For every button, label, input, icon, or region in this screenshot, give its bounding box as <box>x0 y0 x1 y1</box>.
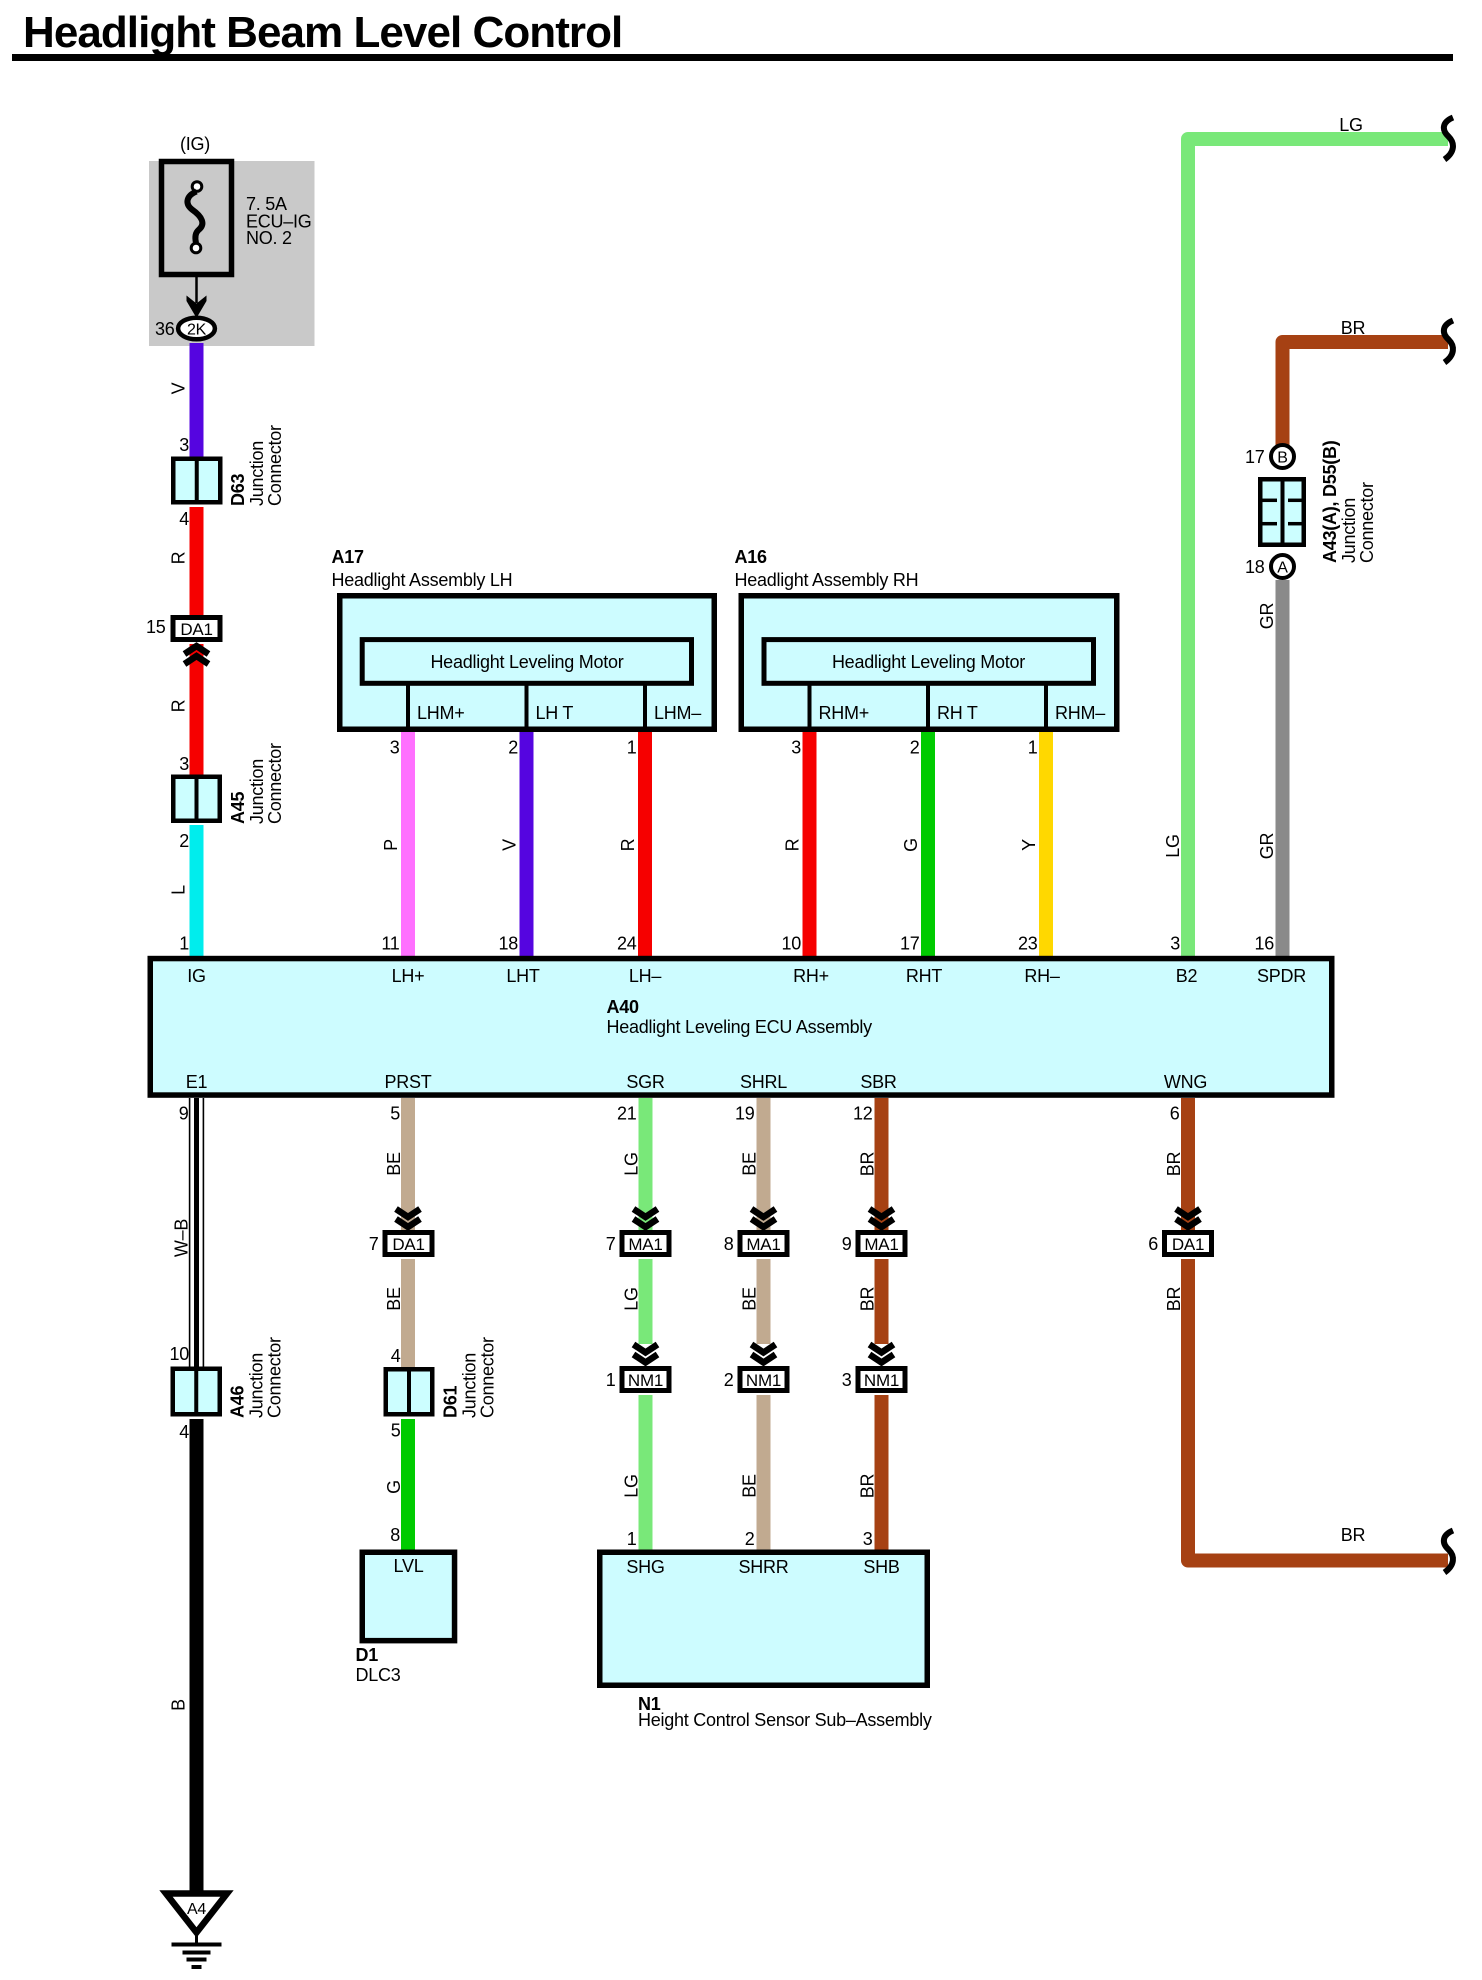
wire BR (from right edge to junction connector pin 17) <box>1283 342 1449 445</box>
svg-text:W–B: W–B <box>172 1219 192 1258</box>
headlight leveling ECU box A40 <box>150 959 1332 1096</box>
svg-text:SHG: SHG <box>626 1557 664 1577</box>
A17 name label <box>332 570 513 590</box>
A40 terminal label B2 <box>1176 966 1198 986</box>
pin 12 label (A40) <box>853 1104 873 1124</box>
svg-text:18: 18 <box>1245 557 1265 577</box>
svg-text:Connector: Connector <box>265 425 285 506</box>
pin 3 label (A17) <box>390 738 400 758</box>
D1 terminal label LVL <box>394 1556 424 1576</box>
svg-text:SPDR: SPDR <box>1257 966 1306 986</box>
svg-text:MA1: MA1 <box>628 1235 662 1254</box>
svg-text:SBR: SBR <box>860 1072 897 1092</box>
pin 36 label <box>155 319 175 339</box>
svg-text:Junction: Junction <box>460 1353 480 1418</box>
pin 6 label (A40 WNG) <box>1170 1104 1180 1124</box>
pin 3 label (A16) <box>791 738 801 758</box>
svg-text:17: 17 <box>1245 447 1265 467</box>
wire BR (A40 WNG to DA1) <box>1181 1098 1195 1232</box>
wire label BR <box>1164 1152 1184 1177</box>
pin 17 label <box>900 934 920 954</box>
svg-text:BE: BE <box>384 1152 404 1176</box>
svg-text:9: 9 <box>842 1234 852 1254</box>
svg-text:8: 8 <box>390 1525 400 1545</box>
A40 terminal label SGR <box>626 1072 665 1092</box>
wire LG (A40 to MA1) <box>639 1098 653 1232</box>
junction connector D61 <box>386 1367 433 1417</box>
svg-text:2: 2 <box>724 1370 734 1390</box>
svg-text:7: 7 <box>606 1234 616 1254</box>
wire fuse to node 2K with arrowhead <box>187 277 207 318</box>
wire label BR <box>858 1474 878 1499</box>
svg-text:LHM+: LHM+ <box>417 703 465 723</box>
DLC3 box D1 <box>362 1552 454 1640</box>
svg-text:WNG: WNG <box>1164 1072 1207 1092</box>
svg-text:Headlight Beam Level Control: Headlight Beam Level Control <box>23 8 622 57</box>
svg-text:RHM–: RHM– <box>1055 703 1105 723</box>
wire label V <box>169 382 189 394</box>
svg-text:2: 2 <box>179 831 189 851</box>
connector NM1 (pin 2) <box>740 1369 787 1391</box>
svg-text:1: 1 <box>1028 738 1038 758</box>
A40 terminal label LH- <box>629 966 662 986</box>
svg-text:MA1: MA1 <box>864 1235 898 1254</box>
wire label BR (vertical) <box>1164 1287 1184 1312</box>
headlight assembly RH box A16 <box>741 596 1117 730</box>
A40 terminal label SPDR <box>1257 966 1306 986</box>
svg-text:RH–: RH– <box>1024 966 1059 986</box>
pin 11 label <box>381 934 399 954</box>
pin 17 label (connector B) <box>1245 447 1265 467</box>
svg-text:V: V <box>500 839 520 851</box>
svg-text:LH–: LH– <box>629 966 662 986</box>
ground A4 symbol <box>166 1894 227 1968</box>
fuse ECU-IG NO.2 box outline <box>162 162 232 275</box>
svg-text:A40: A40 <box>607 997 640 1017</box>
wire BR (DA1 to right edge) <box>1188 1259 1448 1561</box>
svg-text:SHB: SHB <box>863 1557 900 1577</box>
svg-text:A: A <box>1277 560 1288 577</box>
wire R (D63 to DA1) <box>190 507 204 617</box>
terminal label RHM- <box>1055 703 1105 723</box>
wire label B <box>169 1699 189 1711</box>
svg-text:1: 1 <box>179 934 189 954</box>
wire R (RHM+ to A40 pin 10) <box>803 732 817 957</box>
svg-text:NM1: NM1 <box>628 1371 663 1390</box>
junction connector D63 <box>173 457 220 505</box>
D63 designator label <box>228 425 285 506</box>
wire label LG <box>622 1152 642 1176</box>
fuse background panel <box>149 161 315 346</box>
pin 3 label (NM1) <box>842 1370 852 1390</box>
title text <box>23 8 622 57</box>
wire-to-wire arrow above DA1 <box>1176 1209 1200 1227</box>
svg-text:A16: A16 <box>735 547 768 567</box>
A17 terminal dividers <box>408 686 645 730</box>
junction connector A46 <box>173 1367 220 1417</box>
svg-text:BE: BE <box>740 1474 760 1498</box>
wire label GR (upper) <box>1257 602 1277 629</box>
D1 designator and name <box>356 1645 401 1685</box>
svg-text:R: R <box>783 838 803 851</box>
A16 designator <box>735 547 768 567</box>
svg-text:Junction: Junction <box>247 441 267 506</box>
svg-text:V: V <box>169 382 189 394</box>
pin 4 label (A46 bottom) <box>179 1422 189 1442</box>
terminal label LHM+ <box>417 703 465 723</box>
pin 3 label (A40 B2) <box>1170 934 1180 954</box>
svg-text:23: 23 <box>1018 934 1038 954</box>
svg-text:RH T: RH T <box>937 703 978 723</box>
svg-text:2K: 2K <box>187 322 207 339</box>
wire-to-wire arrow above MA1 <box>752 1209 776 1227</box>
wire B (A46 to ground A4) <box>190 1419 204 1891</box>
wire BE (A40 to MA1) <box>757 1098 771 1232</box>
wire L (A45 to A40 pin 1 IG) <box>190 825 204 957</box>
svg-text:Headlight Assembly LH: Headlight Assembly LH <box>332 570 513 590</box>
wire BE (MA1 to NM1) <box>757 1259 771 1344</box>
svg-text:D1: D1 <box>356 1645 379 1665</box>
svg-text:A17: A17 <box>332 547 365 567</box>
pin 21 label (A40) <box>617 1104 637 1124</box>
svg-text:LHT: LHT <box>506 966 540 986</box>
svg-text:BR: BR <box>1341 1525 1366 1545</box>
wire label GR (lower) <box>1257 832 1277 859</box>
wire LG (MA1 to NM1) <box>639 1259 653 1344</box>
connector MA1 (pin 9) <box>858 1233 905 1255</box>
N1 designator and name <box>638 1694 932 1730</box>
svg-text:5: 5 <box>390 1104 400 1124</box>
headlight leveling motor box (LH) <box>362 640 691 684</box>
pin 1 label (A40 IG) <box>179 934 189 954</box>
svg-text:NO. 2: NO. 2 <box>246 228 292 248</box>
wire-to-wire arrow above NM1 <box>870 1345 894 1363</box>
connector MA1 (pin 7) <box>622 1233 669 1255</box>
junction connector A43(A) D55(B) grid <box>1260 477 1304 547</box>
pin 8 label (D1) <box>390 1525 400 1545</box>
svg-text:E1: E1 <box>186 1072 208 1092</box>
svg-text:3: 3 <box>390 738 400 758</box>
wire G (RH T to A40 pin 17) <box>921 732 935 957</box>
node A circle <box>1271 555 1294 578</box>
pin 7 label (MA1) <box>606 1234 616 1254</box>
A16 terminal dividers <box>810 686 1047 730</box>
A40 terminal label PRST <box>384 1072 431 1092</box>
wire V (LH T to A40 pin 18) <box>520 732 534 957</box>
svg-text:A4: A4 <box>187 1901 206 1918</box>
svg-text:Junction: Junction <box>247 1353 267 1418</box>
pin 3 label (N1) <box>863 1529 873 1549</box>
svg-text:3: 3 <box>842 1370 852 1390</box>
wire label P <box>381 839 401 851</box>
svg-text:BR: BR <box>1164 1287 1184 1312</box>
pin 5 label (A40 PRST) <box>390 1104 400 1124</box>
svg-text:LG: LG <box>622 1152 642 1176</box>
wire label BR (horizontal) <box>1341 318 1366 338</box>
A40 terminal label LH+ <box>392 966 425 986</box>
svg-text:2: 2 <box>910 738 920 758</box>
wire label R <box>169 699 189 712</box>
wire-to-wire arrow above DA1 <box>396 1209 420 1227</box>
svg-text:RH+: RH+ <box>793 966 829 986</box>
svg-text:Junction: Junction <box>247 759 267 824</box>
svg-text:21: 21 <box>617 1104 637 1124</box>
connector NM1 (pin 3) <box>858 1369 905 1391</box>
svg-text:3: 3 <box>791 738 801 758</box>
svg-text:2: 2 <box>745 1529 755 1549</box>
pin 10 label <box>781 934 801 954</box>
svg-text:5: 5 <box>391 1421 401 1441</box>
svg-text:9: 9 <box>179 1104 189 1124</box>
wire BE (NM1 to N1 pin 2) <box>757 1395 771 1550</box>
connector DA1 (pin 7) <box>385 1233 432 1255</box>
title underline <box>12 54 1453 61</box>
svg-text:BR: BR <box>1341 318 1366 338</box>
wire break symbol (BR bottom) <box>1444 1531 1453 1573</box>
terminal label LHM- <box>654 703 701 723</box>
svg-text:6: 6 <box>1170 1104 1180 1124</box>
A40 terminal label RH- <box>1024 966 1059 986</box>
N1 terminal label SHRR <box>738 1557 788 1577</box>
wire label R <box>169 551 189 564</box>
svg-text:LG: LG <box>622 1474 642 1498</box>
wire label BE <box>384 1287 404 1311</box>
terminal label LH T <box>536 703 574 723</box>
svg-text:LG: LG <box>1339 115 1363 135</box>
svg-text:DA1: DA1 <box>1172 1235 1204 1254</box>
fuse rating label <box>246 194 312 248</box>
svg-text:BE: BE <box>384 1287 404 1311</box>
svg-text:B2: B2 <box>1176 966 1198 986</box>
wire label LG (horizontal) <box>1339 115 1363 135</box>
svg-text:Connector: Connector <box>265 1337 285 1418</box>
A40 terminal label LHT <box>506 966 540 986</box>
wire GR (connector A to A40 pin 16 SPDR) <box>1276 580 1290 957</box>
connector DA1 (pin 15) <box>173 618 220 640</box>
svg-text:17: 17 <box>900 934 920 954</box>
svg-text:B: B <box>1277 450 1287 467</box>
pin 2 label (A17) <box>508 738 518 758</box>
pin 1 label (NM1) <box>606 1370 616 1390</box>
svg-text:18: 18 <box>498 934 518 954</box>
wire W-B (A40 E1 to A46 pin 10) <box>190 1098 204 1367</box>
wire label BR <box>858 1287 878 1312</box>
svg-text:10: 10 <box>169 1344 189 1364</box>
pin 1 label (A16) <box>1028 738 1038 758</box>
label (IG) <box>180 134 210 154</box>
pin 3 label (D63 top) <box>179 435 189 455</box>
wire label BE <box>740 1474 760 1498</box>
svg-text:Junction: Junction <box>1339 498 1359 563</box>
wire label Y <box>1019 839 1039 851</box>
wire-to-wire arrow (up) below DA1 <box>185 646 209 664</box>
svg-text:LH+: LH+ <box>392 966 425 986</box>
svg-text:LHM–: LHM– <box>654 703 701 723</box>
node 2K oval <box>178 318 215 340</box>
svg-text:D61: D61 <box>441 1385 461 1418</box>
height control sensor box N1 <box>600 1552 928 1685</box>
pin 7 label (DA1) <box>369 1234 379 1254</box>
A40 terminal label RH+ <box>793 966 829 986</box>
svg-text:R: R <box>618 838 638 851</box>
wire label G <box>901 838 921 852</box>
svg-text:4: 4 <box>179 1422 189 1442</box>
pin 10 label (A46 top) <box>169 1344 189 1364</box>
A40 terminal label IG <box>187 966 206 986</box>
svg-text:Headlight Assembly RH: Headlight Assembly RH <box>735 570 919 590</box>
svg-text:DA1: DA1 <box>392 1235 424 1254</box>
wire BE (A40 PRST to DA1) <box>401 1098 415 1232</box>
svg-text:2: 2 <box>508 738 518 758</box>
wire label LG <box>622 1287 642 1311</box>
svg-text:3: 3 <box>179 754 189 774</box>
A17 designator <box>332 547 365 567</box>
connector NM1 (pin 1) <box>622 1369 669 1391</box>
svg-text:7: 7 <box>369 1234 379 1254</box>
svg-text:GR: GR <box>1257 832 1277 859</box>
wire G (D61 to DLC3 pin 8) <box>401 1419 415 1550</box>
pin 2 label (A16) <box>910 738 920 758</box>
svg-text:LH T: LH T <box>536 703 574 723</box>
svg-text:D63: D63 <box>228 473 248 506</box>
svg-text:A46: A46 <box>228 1385 248 1418</box>
svg-text:Y: Y <box>1019 839 1039 851</box>
svg-text:R: R <box>169 551 189 564</box>
svg-text:NM1: NM1 <box>746 1371 781 1390</box>
wire LG (from right edge to A40 pin 3 B2) <box>1188 139 1448 957</box>
wire LG (NM1 to N1 pin 1) <box>639 1395 653 1550</box>
wire V (2K to D63 pin 3) <box>190 343 204 458</box>
wire Y (RHM- to A40 pin 23) <box>1039 732 1053 957</box>
wire label V <box>500 839 520 851</box>
wire label BE <box>740 1152 760 1176</box>
A45 designator label <box>228 743 285 824</box>
A40 terminal label SBR <box>860 1072 897 1092</box>
headlight assembly LH box A17 <box>340 596 715 730</box>
svg-text:Height Control Sensor Sub–Asse: Height Control Sensor Sub–Assembly <box>638 1710 932 1730</box>
svg-text:L: L <box>169 885 189 895</box>
junction connector A45 <box>173 775 220 824</box>
wire label R <box>783 838 803 851</box>
wire-to-wire arrow above MA1 <box>870 1209 894 1227</box>
svg-text:19: 19 <box>735 1104 755 1124</box>
pin 24 label <box>617 934 637 954</box>
wire-to-wire arrow above NM1 <box>634 1345 658 1363</box>
svg-text:Headlight Leveling Motor: Headlight Leveling Motor <box>430 652 623 672</box>
pin 2 label (N1) <box>745 1529 755 1549</box>
svg-text:A45: A45 <box>228 791 248 824</box>
svg-text:BR: BR <box>858 1287 878 1312</box>
svg-text:IG: IG <box>187 966 206 986</box>
pin 6 label (DA1) <box>1148 1234 1158 1254</box>
connector DA1 (pin 6) <box>1165 1233 1212 1255</box>
svg-text:A43(A), D55(B): A43(A), D55(B) <box>1320 440 1340 563</box>
pin 4 label (D61 top) <box>391 1346 401 1366</box>
svg-text:3: 3 <box>179 435 189 455</box>
svg-text:(IG): (IG) <box>180 134 210 154</box>
wire label BE <box>384 1152 404 1176</box>
svg-text:SGR: SGR <box>626 1072 665 1092</box>
N1 terminal label SHG <box>626 1557 664 1577</box>
svg-text:MA1: MA1 <box>746 1235 780 1254</box>
svg-text:G: G <box>384 1480 404 1494</box>
svg-text:4: 4 <box>179 509 189 529</box>
wire break symbol (BR) <box>1444 321 1453 363</box>
pin 1 label (N1) <box>627 1529 637 1549</box>
A46 designator label <box>228 1337 285 1418</box>
pin 19 label (A40) <box>735 1104 755 1124</box>
wire label L <box>169 885 189 895</box>
wire BE (DA1 to D61 pin 4) <box>401 1259 415 1368</box>
pin 2 label (NM1) <box>724 1370 734 1390</box>
svg-text:Headlight Leveling ECU Assembl: Headlight Leveling ECU Assembly <box>607 1017 873 1037</box>
svg-text:24: 24 <box>617 934 637 954</box>
A40 designator and name <box>607 997 873 1037</box>
A40 terminal label RHT <box>906 966 942 986</box>
wire label BR (horizontal) <box>1341 1525 1366 1545</box>
svg-text:10: 10 <box>781 934 801 954</box>
wire label BE <box>740 1287 760 1311</box>
wire label G <box>384 1480 404 1494</box>
svg-text:3: 3 <box>863 1529 873 1549</box>
pin 5 label (D61 bottom) <box>391 1421 401 1441</box>
svg-text:1: 1 <box>606 1370 616 1390</box>
svg-text:8: 8 <box>724 1234 734 1254</box>
svg-text:BR: BR <box>1164 1152 1184 1177</box>
pin 3 label (A45 top) <box>179 754 189 774</box>
wire label LG (vertical) <box>1163 834 1183 858</box>
pin 16 label (A40 SPDR) <box>1254 934 1274 954</box>
wire P (LHM+ to A40 pin 11) <box>401 732 415 957</box>
svg-text:16: 16 <box>1254 934 1274 954</box>
terminal label RHM+ <box>819 703 870 723</box>
A40 terminal label WNG <box>1164 1072 1207 1092</box>
pin 4 label (D63 bottom) <box>179 509 189 529</box>
svg-text:BR: BR <box>858 1152 878 1177</box>
svg-text:GR: GR <box>1257 602 1277 629</box>
svg-text:SHRL: SHRL <box>740 1072 787 1092</box>
A43(A) D55(B) designator label <box>1320 440 1377 563</box>
svg-text:BR: BR <box>858 1474 878 1499</box>
D61 designator label <box>441 1337 498 1418</box>
wire label W-B <box>172 1219 192 1258</box>
wire label LG <box>622 1474 642 1498</box>
pin 15 label (DA1) <box>146 617 166 637</box>
pin 9 label (A40 E1) <box>179 1104 189 1124</box>
A40 terminal label E1 <box>186 1072 208 1092</box>
pin 9 label (MA1) <box>842 1234 852 1254</box>
svg-text:LG: LG <box>622 1287 642 1311</box>
svg-text:6: 6 <box>1148 1234 1158 1254</box>
node B circle <box>1271 445 1294 468</box>
pin 23 label <box>1018 934 1038 954</box>
pin 1 label (A17) <box>627 738 637 758</box>
svg-text:NM1: NM1 <box>864 1371 899 1390</box>
wire BR (NM1 to N1 pin 3) <box>875 1395 889 1550</box>
svg-text:Connector: Connector <box>478 1337 498 1418</box>
pin 2 label (A45 bottom) <box>179 831 189 851</box>
wire R (LHM- to A40 pin 24) <box>638 732 652 957</box>
wire-to-wire arrow above NM1 <box>752 1345 776 1363</box>
svg-text:RHT: RHT <box>906 966 942 986</box>
svg-text:BE: BE <box>740 1152 760 1176</box>
svg-text:BE: BE <box>740 1287 760 1311</box>
headlight leveling motor box (RH) <box>764 640 1094 684</box>
pin 18 label (connector A) <box>1245 557 1265 577</box>
svg-text:DLC3: DLC3 <box>356 1665 401 1685</box>
svg-text:B: B <box>169 1699 189 1711</box>
wire BR (A40 to MA1) <box>875 1098 889 1232</box>
